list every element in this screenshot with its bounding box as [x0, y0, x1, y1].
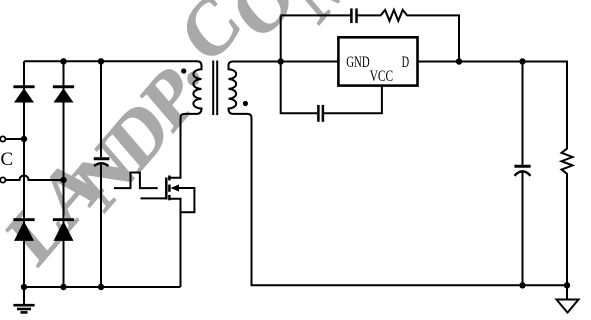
svg-text:GND: GND — [346, 54, 370, 71]
svg-text:C: C — [1, 149, 14, 170]
svg-text:D: D — [402, 54, 410, 71]
svg-text:VCC: VCC — [370, 68, 393, 85]
